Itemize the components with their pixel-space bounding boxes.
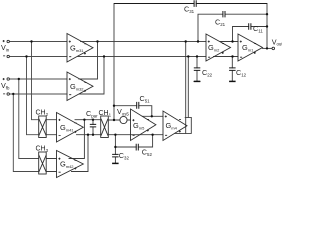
op-amp Gm5 input polarity marks: [132, 119, 134, 135]
junction C11 tap: [231, 40, 233, 42]
capacitor C12 plates: [229, 68, 236, 71]
junction C21/Vout node: [266, 13, 268, 15]
wire Vfb+ input: [10, 78, 67, 80]
wire Vin+ to CH2 upper: [32, 42, 39, 120]
op-amp Gm32 input polarity marks: [69, 78, 72, 95]
wire CH2 to Gm41 inputs: [47, 120, 57, 135]
op-amp Gm1 output polarity marks: [254, 43, 256, 54]
wire Gm32 upper output up to bus1: [79, 42, 98, 80]
ground bar under C32: [112, 162, 119, 164]
wire CH1 upper output to Vos5 and Gm5 +: [109, 119, 131, 121]
wire bus1 Gm31 upper output to Gm2 + input: [81, 41, 207, 43]
capacitor C32 plates: [112, 154, 119, 157]
wire Gm41 lower output to CH1: [77, 134, 101, 136]
wire Vfb+ to CH3 upper: [19, 79, 39, 159]
junction Gm31/Gm32 + outputs to bus1: [96, 40, 98, 42]
terminal polarity marks: [3, 40, 6, 94]
capacitor C31: [114, 0, 267, 7]
junction Vin- tap: [25, 55, 27, 57]
wire Cpar stems: [92, 120, 94, 135]
wire Gm1 output to Vout terminal: [263, 47, 272, 49]
wire C11 path: [233, 27, 268, 42]
wire Gm5 upper output to Gm4 + input: [142, 115, 163, 117]
wire bus2 Gm31 lower output to Gm2 - input: [78, 56, 206, 58]
junction Gm41/Gm42 upper outputs: [83, 119, 85, 121]
capacitor C21 plates: [223, 11, 225, 17]
op-amp Gm32 output polarity marks: [84, 83, 87, 92]
junction Vout node: [266, 47, 268, 49]
junction Vfb+ tap: [18, 78, 20, 80]
op-amp Gm41: [57, 113, 84, 143]
op-amp Gm2 input polarity marks: [208, 41, 210, 58]
chopper CH2: [39, 116, 47, 138]
chopper CH1: [101, 116, 109, 138]
wire CH1 lower output through Gm5 - to Gm4 -: [109, 134, 163, 136]
wire C22 stem: [194, 57, 200, 82]
wire C51 feedback path: [114, 106, 152, 117]
junction Gm4 output to bus1: [185, 40, 187, 42]
op-amp Gm4 output polarity marks: [179, 119, 181, 132]
op-amp Gm1 input polarity marks: [240, 41, 242, 58]
op-amp Gm31: [67, 34, 93, 63]
ground bar under C22: [194, 80, 201, 82]
wire Gm2 upper output to Gm1 +: [220, 41, 238, 43]
wire Gm4 lower output vertical to bus1: [185, 42, 187, 134]
wire Vin- input: [10, 56, 67, 58]
op-amp Gm2: [206, 34, 231, 61]
wire C12 stem: [231, 57, 233, 82]
op-amp Gm5 output polarity marks: [147, 119, 149, 131]
capacitor C51 plates: [137, 102, 139, 109]
wire Gm4 upper output vertical to bus2: [187, 57, 189, 118]
junction Cpar top tap: [92, 119, 94, 121]
terminal Vfb-: [7, 93, 9, 95]
wire Vfb- input: [10, 93, 67, 95]
wire Gm42 lower output to summing node: [72, 135, 89, 172]
junction Vfb- tap: [12, 93, 14, 95]
junction Cpar bottom tap: [92, 134, 94, 136]
wire Gm41 upper output to CH1: [75, 119, 100, 121]
junction C32 tap on C52 path: [114, 146, 116, 148]
junction C11/Vout node: [266, 25, 268, 27]
wire Gm32 lower output up to bus2: [79, 57, 104, 95]
wire C52 feedback path: [115, 135, 152, 147]
voltage source Vos5 circle: [120, 116, 127, 123]
junction Gm4 output to bus2: [187, 55, 189, 57]
wire C31 top horizontal: [114, 3, 267, 5]
junction C51 left tap: [113, 105, 115, 107]
op-amp Gm42 input polarity marks: [58, 158, 60, 173]
capacitor C11 plates: [249, 23, 251, 29]
junction C12 tap: [231, 55, 233, 57]
op-amp Gm2 output polarity marks: [222, 43, 224, 54]
op-amp Gm42 output polarity marks: [74, 160, 76, 169]
op-amp Gm32: [67, 72, 93, 101]
op-amp Gm4: [163, 111, 187, 141]
op-amp Gm42: [57, 151, 84, 178]
junction C51 right tap on Gm5 upper output: [151, 115, 153, 117]
chopper CH3: [39, 152, 47, 174]
wire Gm42 upper output to summing node: [69, 120, 84, 159]
junction C22 tap on bus2: [196, 55, 198, 57]
op-amp Gm4 input polarity marks: [165, 115, 167, 135]
ground bar under C12: [229, 80, 236, 82]
wire Vin- to CH2 lower: [27, 57, 39, 135]
wire Vout vertical: [266, 4, 268, 49]
wire C32 stem: [114, 147, 116, 163]
wire C31 node vertical: [113, 4, 115, 121]
capacitor C52 plates: [136, 144, 138, 151]
wire Gm4 apex wrap top: [175, 117, 191, 133]
terminal Vin-: [7, 55, 9, 57]
op-amp Gm1: [238, 34, 263, 61]
op-amp Gm41 input polarity marks: [58, 119, 60, 136]
op-amp Gm5: [131, 109, 156, 141]
junction Gm31/Gm32 - outputs to bus2: [103, 55, 105, 57]
wire Vin+ input: [10, 41, 67, 43]
op-amp Gm31 output polarity marks: [84, 44, 87, 55]
terminal Vfb+: [7, 78, 9, 80]
op-amp Gm41 output polarity marks: [74, 123, 76, 133]
junction C21 tap on bus1: [197, 40, 199, 42]
wire Gm2 lower output to Gm1 -: [214, 56, 239, 58]
wire Vfb- to CH3 lower: [13, 94, 38, 172]
op-amp Gm31 input polarity marks: [69, 41, 72, 57]
junction Vos5 node: [113, 119, 115, 121]
capacitor Cpar plates: [90, 124, 96, 127]
junction Gm41/Gm42 lower outputs: [87, 134, 89, 136]
wire CH3 to Gm42 inputs: [47, 159, 57, 172]
terminal Vout: [272, 47, 275, 50]
junction Vin+ tap: [30, 40, 32, 42]
terminal Vin+: [7, 40, 9, 42]
junction C52 left tap: [114, 134, 116, 136]
junction C52 right tap on Gm5 lower output: [151, 134, 153, 136]
capacitor C22 plates: [194, 68, 201, 71]
wire C21 path: [198, 14, 267, 41]
